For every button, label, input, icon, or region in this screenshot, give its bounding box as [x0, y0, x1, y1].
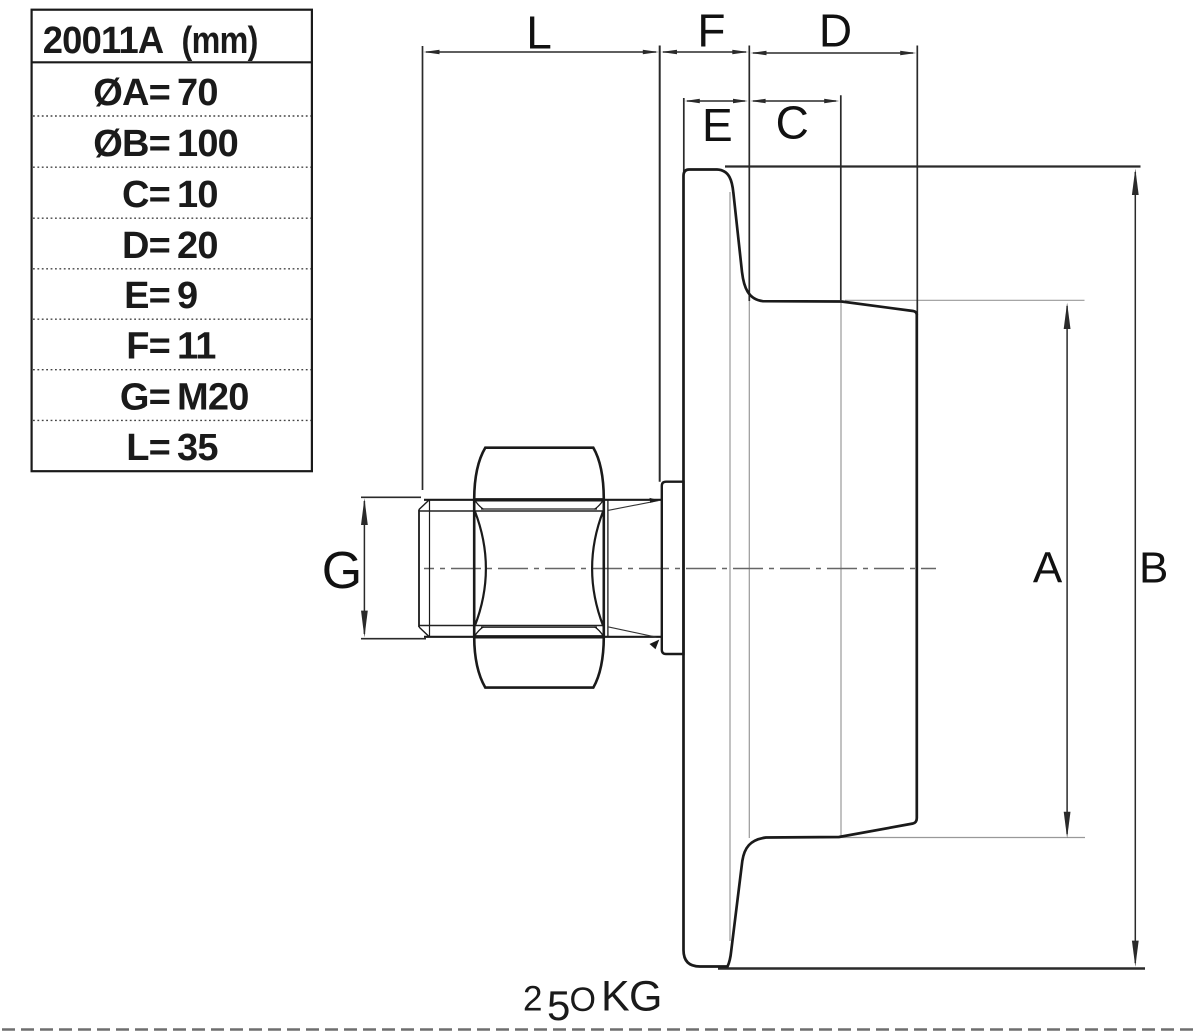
- svg-text:ØB=: ØB=: [93, 123, 170, 165]
- svg-text:D: D: [819, 5, 852, 57]
- svg-text:C=: C=: [122, 174, 170, 216]
- svg-text:35: 35: [177, 427, 218, 469]
- svg-text:20: 20: [177, 225, 218, 267]
- svg-text:10: 10: [177, 174, 218, 216]
- svg-text:100: 100: [177, 123, 238, 165]
- svg-text:ØA=: ØA=: [93, 72, 170, 114]
- svg-text:B: B: [1139, 544, 1168, 593]
- svg-text:20011A: 20011A: [43, 20, 164, 62]
- svg-text:E=: E=: [124, 275, 170, 317]
- svg-text:L: L: [526, 6, 552, 58]
- svg-text:C: C: [776, 97, 809, 149]
- svg-text:(mm): (mm): [182, 20, 258, 62]
- svg-text:D=: D=: [122, 225, 170, 267]
- svg-text:F=: F=: [126, 326, 170, 368]
- svg-text:L=: L=: [126, 427, 170, 469]
- svg-text:70: 70: [177, 72, 218, 114]
- svg-text:G=: G=: [120, 376, 170, 418]
- svg-text:F: F: [697, 5, 725, 57]
- svg-text:E: E: [702, 99, 733, 151]
- svg-text:11: 11: [177, 326, 216, 368]
- svg-text:A: A: [1033, 544, 1063, 593]
- svg-text:9: 9: [177, 275, 197, 317]
- svg-text:M20: M20: [177, 376, 249, 418]
- svg-text:G: G: [322, 542, 362, 600]
